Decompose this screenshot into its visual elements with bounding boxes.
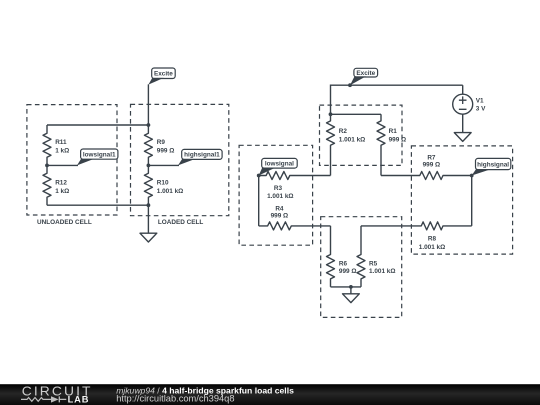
ground (V1) bbox=[454, 133, 471, 142]
dashed box lowsignal cell bbox=[239, 145, 313, 245]
footer title text bbox=[116, 385, 294, 395]
svg-text:999 Ω: 999 Ω bbox=[271, 213, 289, 220]
svg-text:R6: R6 bbox=[339, 261, 348, 268]
flag Excite (left) bbox=[148, 68, 175, 85]
svg-text:UNLOADED CELL: UNLOADED CELL bbox=[37, 219, 92, 226]
svg-text:http://circuitlab.com/ch394q8: http://circuitlab.com/ch394q8 bbox=[116, 393, 234, 403]
svg-text:LOADED CELL: LOADED CELL bbox=[158, 219, 204, 226]
svg-text:R10: R10 bbox=[157, 180, 169, 187]
dashed box bridge bottom bbox=[321, 217, 402, 318]
wire bottom rail (unloaded to loaded) bbox=[47, 204, 148, 206]
dashed box bridge top bbox=[320, 105, 403, 165]
wire Excite to loaded cell bbox=[147, 84, 149, 125]
svg-text:999 Ω: 999 Ω bbox=[339, 268, 357, 275]
svg-text:lowsignal: lowsignal bbox=[265, 161, 294, 168]
voltage source V1 bbox=[453, 85, 486, 132]
svg-text:R11: R11 bbox=[55, 139, 67, 146]
node junction bottom rail bbox=[147, 203, 151, 207]
svg-text:1.001 kΩ: 1.001 kΩ bbox=[157, 188, 183, 195]
svg-text:R4: R4 bbox=[275, 206, 284, 213]
ground (bridge) bbox=[343, 287, 360, 303]
svg-text:Excite: Excite bbox=[356, 70, 375, 77]
svg-text:highsignal1: highsignal1 bbox=[184, 152, 220, 159]
svg-text:R2: R2 bbox=[339, 128, 348, 135]
node lowsignal1 junction bbox=[45, 164, 49, 168]
svg-text:1.001 kΩ: 1.001 kΩ bbox=[369, 268, 395, 275]
flag lowsignal1 bbox=[47, 149, 118, 165]
ground (left cells) bbox=[140, 205, 157, 242]
svg-text:1.001 kΩ: 1.001 kΩ bbox=[267, 193, 293, 200]
svg-text:999 Ω: 999 Ω bbox=[157, 148, 175, 155]
wire highsignal branch bbox=[471, 176, 473, 226]
svg-text:1.001 kΩ: 1.001 kΩ bbox=[339, 136, 365, 143]
flag highsignal bbox=[472, 158, 511, 175]
CircuitLab logo CIRCUIT bbox=[22, 384, 93, 398]
footer bar bbox=[0, 384, 540, 405]
resistor R7 bbox=[381, 154, 472, 179]
flag Excite (right) bbox=[350, 68, 378, 85]
svg-text:R1: R1 bbox=[389, 128, 398, 135]
footer url text bbox=[116, 393, 234, 403]
wire bridge top rail bbox=[331, 113, 382, 115]
resistor R5 bbox=[357, 226, 395, 287]
resistor R11 bbox=[43, 125, 69, 165]
wire lowsignal branch bbox=[258, 176, 260, 226]
resistor R4 bbox=[259, 206, 331, 230]
svg-text:3 V: 3 V bbox=[476, 106, 486, 113]
svg-text:R8: R8 bbox=[428, 236, 437, 243]
CircuitLab logo LAB bbox=[68, 395, 90, 405]
svg-text:R7: R7 bbox=[427, 154, 436, 161]
svg-text:R5: R5 bbox=[369, 261, 378, 268]
svg-text:1 kΩ: 1 kΩ bbox=[55, 148, 69, 155]
node bridge top junction bbox=[329, 112, 333, 116]
node bridge bottom junction bbox=[349, 285, 353, 289]
svg-text:V1: V1 bbox=[476, 98, 484, 105]
node highsignal1 junction bbox=[147, 164, 151, 168]
flag lowsignal bbox=[259, 158, 298, 175]
resistor R6 bbox=[327, 226, 357, 287]
flag highsignal1 bbox=[148, 149, 222, 165]
resistor R2 bbox=[327, 114, 366, 175]
svg-text:R3: R3 bbox=[274, 185, 283, 192]
svg-text:999 Ω: 999 Ω bbox=[389, 136, 407, 143]
resistor R3 bbox=[259, 172, 331, 200]
CircuitLab logo resistor-diode glyph bbox=[21, 396, 66, 402]
resistor R8 bbox=[361, 222, 472, 251]
node lowsignal junction bbox=[257, 174, 261, 178]
resistor R9 bbox=[144, 125, 174, 165]
svg-text:LAB: LAB bbox=[68, 395, 90, 405]
node junction top rail bbox=[147, 123, 151, 127]
dashed box highsignal cell bbox=[411, 146, 512, 254]
svg-text:999 Ω: 999 Ω bbox=[423, 162, 441, 169]
node highsignal junction bbox=[470, 174, 474, 178]
svg-text:Excite: Excite bbox=[154, 71, 173, 78]
wire top rail (unloaded to loaded) bbox=[47, 124, 148, 126]
svg-text:R9: R9 bbox=[157, 139, 166, 146]
wire bridge bottom rail bbox=[331, 286, 362, 288]
wire Excite rail to V1 bbox=[331, 85, 463, 114]
resistor R1 bbox=[377, 114, 406, 175]
svg-text:1 kΩ: 1 kΩ bbox=[55, 188, 69, 195]
dashed box LOADED CELL bbox=[131, 104, 229, 226]
resistor R10 bbox=[144, 165, 183, 205]
dashed box UNLOADED CELL bbox=[27, 105, 117, 226]
svg-text:R12: R12 bbox=[55, 180, 67, 187]
svg-text:highsignal: highsignal bbox=[477, 161, 509, 168]
svg-text:lowsignal1: lowsignal1 bbox=[83, 151, 116, 158]
resistor R12 bbox=[43, 165, 69, 205]
svg-text:1.001 kΩ: 1.001 kΩ bbox=[419, 244, 445, 251]
node Excite wire junction bbox=[348, 83, 352, 87]
